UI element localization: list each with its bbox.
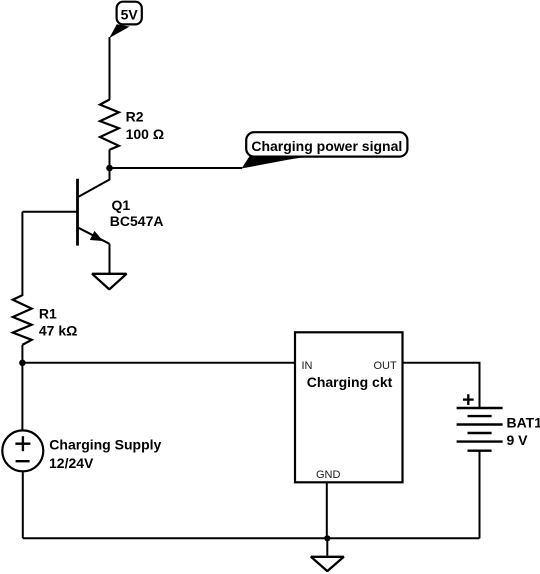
wire node B to IN [22,362,294,364]
svg-text:12/24V: 12/24V [49,455,94,471]
svg-text:R2: R2 [126,109,144,125]
node A junction dot [106,165,113,172]
ground (emitter) [92,274,126,290]
resistor R1 [13,295,32,345]
net label Charging power signal [246,132,407,156]
wire bottom rail [23,537,480,539]
wire R2 to node A [109,150,111,169]
svg-text:5V: 5V [121,7,139,23]
svg-text:9 V: 9 V [507,432,529,448]
wire supply to bottom rail [22,471,24,538]
svg-text:47 kΩ: 47 kΩ [39,322,77,338]
wire node A to collector [79,168,110,197]
wire battery to bottom rail [479,451,481,539]
resistor R2 [100,100,119,150]
ground (bottom) [311,557,344,571]
svg-text:IN: IN [302,360,313,372]
source V1 Charging Supply [2,430,43,471]
wire OUT to battery [403,363,480,408]
net label 5V pointer [109,24,129,38]
charging ckt box U1 [295,332,403,482]
svg-text:Charging ckt: Charging ckt [307,374,393,390]
wire node C to ground [326,538,328,555]
wire emitter to ground [109,244,111,273]
node C junction dot [324,535,330,541]
svg-text:GND: GND [316,469,341,481]
node B junction dot [19,360,26,367]
wire GND pin to rail [326,482,328,538]
svg-text:OUT: OUT [373,360,397,372]
svg-text:Charging power signal: Charging power signal [251,138,402,154]
wire base [22,211,77,213]
battery plus sign [463,394,474,405]
svg-text:Charging Supply: Charging Supply [49,437,161,453]
wire R1 to node B [21,345,23,363]
svg-text:Q1: Q1 [112,197,131,213]
net label pointer [242,156,308,168]
wire node B to supply [21,363,23,430]
svg-text:R1: R1 [39,305,57,321]
svg-text:BAT1: BAT1 [507,415,540,431]
wire node A to signal flag [110,167,243,169]
wire base down to R1 [21,212,23,296]
svg-text:100 Ω: 100 Ω [126,126,164,142]
battery BAT1 [457,408,503,451]
wire 5V to R2 [109,37,111,100]
net label 5V [117,2,142,25]
svg-text:BC547A: BC547A [110,213,164,229]
transistor Q1 [78,179,110,246]
